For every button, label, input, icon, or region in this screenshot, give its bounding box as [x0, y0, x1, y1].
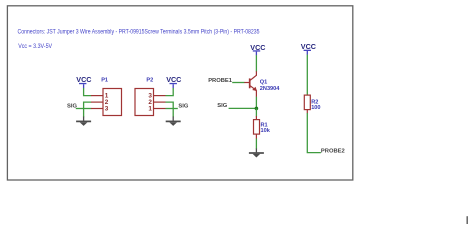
- svg-text:10k: 10k: [261, 128, 271, 134]
- P2 pin 1 lead: [154, 108, 166, 110]
- wire VCC to Q1 collector: [255, 55, 257, 71]
- VCC supply symbol (above R2): [301, 42, 316, 55]
- transistor Q1 2N3904: [244, 71, 280, 97]
- P2 pin 2 lead: [154, 101, 166, 103]
- svg-text:SIG: SIG: [178, 103, 188, 109]
- R2 bottom lead: [306, 110, 308, 114]
- page number 1: [467, 216, 468, 224]
- svg-text:PROBE2: PROBE2: [321, 148, 345, 154]
- R1 body: [254, 120, 260, 135]
- Q1 base bar: [249, 78, 251, 88]
- wire R2 to PROBE2: [307, 113, 321, 153]
- wire VCC to P1 pin 1: [84, 88, 92, 96]
- svg-text:VCC: VCC: [76, 75, 91, 84]
- ground symbol (under P1): [76, 117, 91, 126]
- ground symbol (under P2): [166, 117, 181, 126]
- wire SIG to P1 pin 3: [76, 108, 91, 110]
- wire VCC to P2 pin 3: [166, 88, 174, 96]
- junction node (emitter/SIG/R1): [255, 107, 259, 111]
- Q1 emitter diagonal: [250, 86, 256, 91]
- connector P1: [91, 78, 122, 116]
- wire VCC to R2: [306, 55, 308, 96]
- schematic frame border: [7, 6, 352, 180]
- wire R1 to ground: [255, 139, 257, 149]
- VCC supply symbol (left, for P1): [76, 75, 91, 88]
- VCC supply symbol (above Q1): [250, 43, 265, 55]
- svg-text:P2: P2: [146, 78, 153, 84]
- svg-text:Q1: Q1: [260, 79, 267, 85]
- wire Q1 emitter down to node: [255, 97, 257, 109]
- wire P1 pin 2 to ground: [84, 102, 92, 117]
- wire P2 pin 2 to ground: [166, 102, 174, 117]
- svg-text:1: 1: [148, 106, 152, 113]
- svg-text:2N3904: 2N3904: [260, 86, 280, 92]
- R2 body: [304, 95, 310, 110]
- Q1 base lead: [244, 82, 249, 84]
- svg-text:SIG: SIG: [217, 103, 227, 109]
- svg-text:P1: P1: [101, 78, 108, 84]
- P1 pin 1 lead: [91, 95, 103, 97]
- P2 pin 3 lead: [154, 95, 166, 97]
- connector P2: [135, 78, 166, 116]
- wire P2 pin 1 to SIG: [166, 108, 178, 110]
- wire SIG to node: [229, 107, 257, 109]
- resistor R2: [304, 95, 320, 113]
- Q1 emitter arrow: [252, 87, 257, 91]
- svg-text:Connectors: JST Jumper 3 Wire: Connectors: JST Jumper 3 Wire Assembly -…: [18, 30, 261, 36]
- ground symbol (under R1): [249, 149, 264, 158]
- wire node to R1: [255, 108, 257, 116]
- P1 pin 3 lead: [91, 108, 103, 110]
- wire PROBE1 to Q1 base: [232, 82, 244, 84]
- svg-text:Vcc = 3.3V-5V: Vcc = 3.3V-5V: [18, 44, 52, 50]
- resistor R1: [254, 116, 271, 139]
- VCC supply symbol (for P2): [166, 75, 181, 88]
- Q1 emitter lead: [255, 90, 257, 97]
- svg-text:VCC: VCC: [301, 42, 316, 51]
- P2 body: [135, 89, 154, 116]
- svg-text:100: 100: [311, 105, 320, 111]
- svg-text:PROBE1: PROBE1: [208, 78, 233, 84]
- Q1 collector lead: [255, 71, 257, 76]
- P1 body: [103, 89, 122, 116]
- svg-text:VCC: VCC: [166, 75, 181, 84]
- Q1 collector diagonal: [250, 75, 256, 80]
- P1 pin 2 lead: [91, 101, 103, 103]
- R1 bottom lead: [255, 134, 257, 139]
- R1 top lead: [255, 116, 257, 120]
- svg-text:3: 3: [105, 106, 109, 113]
